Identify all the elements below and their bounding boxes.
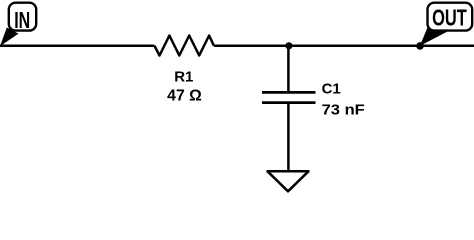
resistor R1 [155,36,215,56]
wire IN to R1 [0,45,155,48]
svg-text:47 Ω: 47 Ω [167,88,202,105]
wire node to C1 [287,46,290,93]
ground [268,171,309,191]
svg-text:73 nF: 73 nF [322,102,365,119]
label OUT pointer [420,28,447,47]
node OUT dot [416,42,424,50]
wire R1 to OUT [214,45,474,48]
label OUT box [428,3,473,31]
wire C1 to ground [287,103,290,172]
label IN pointer [0,28,19,47]
label IN box [9,3,36,31]
svg-text:R1: R1 [174,68,193,85]
node junction dot [285,42,292,49]
svg-text:IN: IN [14,8,30,34]
capacitor C1 [262,92,316,102]
svg-text:C1: C1 [322,80,341,97]
svg-text:OUT: OUT [432,6,467,31]
